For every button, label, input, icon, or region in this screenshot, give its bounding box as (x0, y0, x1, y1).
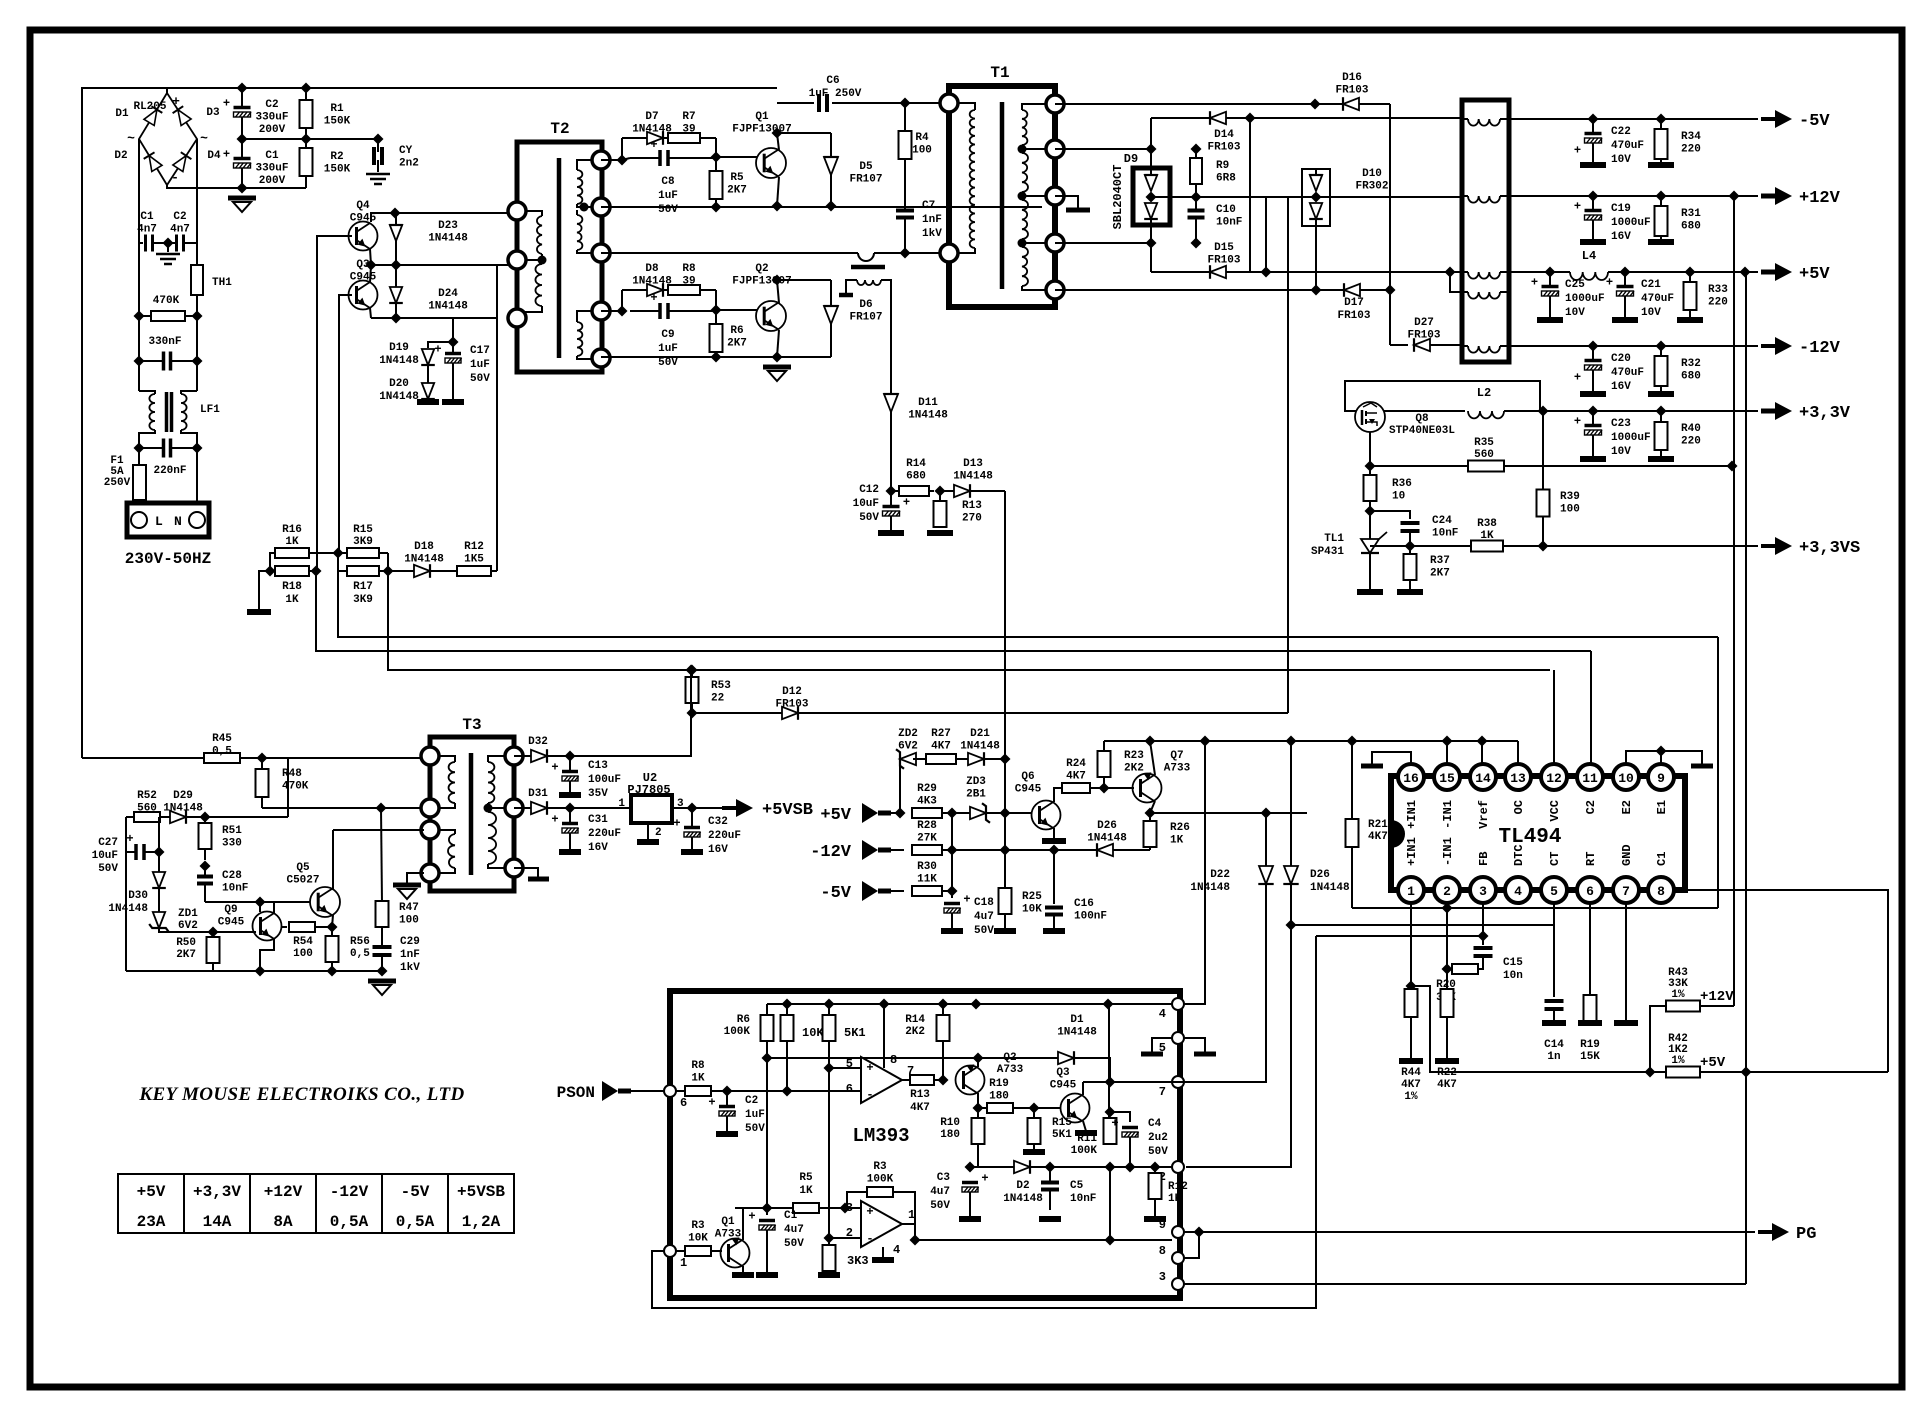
label R15 5K1 (1052, 1117, 1072, 1141)
resistor R12 1K (1149, 1167, 1162, 1215)
label D7 (632, 111, 672, 136)
svg-text:C19: C19 (1611, 203, 1631, 215)
wire (766, 1058, 768, 1215)
wire Q6 base (1005, 812, 1032, 814)
junction (1191, 238, 1202, 249)
label ZD2 (898, 728, 918, 753)
wire pin14 (1481, 741, 1483, 764)
resistor R7 (663, 133, 716, 143)
svg-text:+: + (866, 1061, 873, 1075)
svg-text:4K7: 4K7 (1368, 831, 1388, 843)
wire Q1 emitter (742, 1208, 744, 1240)
wire D1 row (767, 1057, 1058, 1059)
wire Q7 base (1104, 787, 1134, 789)
transistor Q3 C945 (349, 281, 378, 310)
label R42 (1668, 1033, 1688, 1067)
resistor R8 1K (685, 1086, 727, 1096)
ground (1075, 1130, 1097, 1136)
svg-text:220nF: 220nF (153, 465, 186, 477)
wire Q3 emitter (370, 308, 371, 318)
wire C4 branch (1110, 1112, 1130, 1122)
output +3,3VS (1761, 537, 1860, 558)
svg-text:2B1: 2B1 (966, 789, 986, 801)
PSON input arrow (557, 1081, 631, 1102)
label R3 100K (867, 1161, 894, 1186)
opamp LM393a (861, 1057, 902, 1103)
svg-text:RT: RT (1584, 852, 1598, 866)
svg-text:4K7: 4K7 (910, 1102, 930, 1114)
wire Q1 collector (777, 133, 779, 150)
wire pin3 row (1184, 1283, 1746, 1285)
svg-text:R38: R38 (1477, 518, 1497, 530)
svg-text:1N4148: 1N4148 (632, 276, 672, 288)
wire Q1 emitter (777, 177, 779, 206)
label R10 (940, 1117, 960, 1141)
svg-text:14: 14 (1475, 771, 1491, 786)
svg-text:D9: D9 (1124, 152, 1138, 166)
junction (1286, 736, 1297, 747)
svg-text:2: 2 (1443, 884, 1451, 899)
junction (772, 352, 783, 363)
label R50 (176, 937, 196, 961)
svg-text:R27: R27 (931, 728, 951, 740)
svg-text:GND: GND (1620, 844, 1634, 866)
svg-text:C945: C945 (1015, 784, 1042, 796)
resistor R23 (1098, 741, 1111, 788)
T3 bottom-left ground (407, 873, 424, 883)
svg-text:+: + (903, 496, 910, 510)
svg-text:D21: D21 (970, 728, 990, 740)
svg-text:R13: R13 (910, 1089, 930, 1101)
wire (138, 448, 140, 465)
resistor R17 (338, 566, 388, 576)
resistor R48 (256, 758, 269, 808)
wire (804, 712, 1288, 714)
transistor Q1 FJPF13007 (756, 148, 786, 178)
pin 3 (1172, 1278, 1184, 1290)
svg-text:PSON: PSON (557, 1084, 595, 1102)
ground (1614, 1020, 1638, 1026)
filter choke LF1 (139, 391, 197, 448)
junction (200, 861, 211, 872)
wire (874, 252, 945, 254)
junction (762, 1053, 773, 1064)
wire (139, 242, 143, 244)
wire pin2 (1446, 902, 1448, 989)
svg-text:100: 100 (293, 948, 313, 960)
wire row 290 (1055, 289, 1390, 291)
transistor Q3 C945 (1061, 1094, 1090, 1123)
wire (777, 102, 814, 104)
svg-text:13: 13 (1510, 771, 1526, 786)
junction (255, 897, 266, 908)
wire (167, 243, 169, 252)
wire (1650, 1006, 1666, 1072)
label R37 (1430, 555, 1450, 580)
wire (692, 712, 776, 714)
wire (138, 139, 140, 243)
diode D19 (421, 349, 435, 365)
label R27 (931, 728, 951, 753)
junction (772, 275, 783, 286)
terminal (940, 244, 958, 262)
label C27 (92, 837, 119, 875)
junction (971, 999, 982, 1010)
junction (373, 134, 384, 145)
junction (772, 128, 783, 139)
label C1 4n7 (137, 211, 157, 236)
svg-text:L: L (155, 514, 163, 529)
label 330nF (148, 336, 181, 348)
junction (134, 356, 145, 367)
capacitor C25 (1531, 272, 1559, 318)
svg-text:8: 8 (890, 1053, 897, 1067)
diode D18 (388, 564, 430, 578)
output -12V (1761, 337, 1841, 358)
transistor Q2 FJPF13007 (756, 301, 786, 331)
svg-text:10K: 10K (802, 1026, 824, 1040)
pin 7 (1613, 877, 1639, 903)
wire row9 (915, 1224, 1172, 1240)
label Q1 (732, 111, 791, 136)
wire +5V rail (1250, 271, 1462, 273)
label D21 (960, 728, 1000, 753)
svg-text:D23: D23 (438, 220, 458, 232)
label Q6 (1015, 771, 1042, 796)
wire (1172, 1081, 1186, 1083)
wire (647, 823, 649, 839)
wire (570, 807, 631, 809)
svg-text:C6: C6 (826, 75, 839, 87)
resistor R15 (338, 548, 388, 558)
junction (1105, 1107, 1116, 1118)
svg-text:R12: R12 (464, 541, 484, 553)
wire +5V row (1509, 271, 1560, 273)
wire (715, 290, 717, 310)
junction (895, 808, 906, 819)
svg-text:T3: T3 (462, 716, 481, 734)
resistor R2 (300, 139, 313, 188)
wire (1249, 118, 1251, 272)
junction (824, 1063, 835, 1074)
wire (1290, 741, 1292, 866)
svg-text:+: + (172, 94, 180, 109)
wire Q2 collector (977, 1093, 979, 1108)
svg-text:R35: R35 (1474, 437, 1494, 449)
svg-text:470uF: 470uF (1641, 293, 1674, 305)
svg-text:FR107: FR107 (849, 174, 882, 186)
junction (1105, 1077, 1116, 1088)
svg-text:1K: 1K (691, 1073, 705, 1085)
wire pin1 (1410, 902, 1412, 989)
label C28 (222, 870, 248, 895)
label Q3 (350, 259, 377, 284)
wire (167, 185, 306, 188)
ground (637, 839, 659, 845)
junction (1477, 736, 1488, 747)
label C21 (1641, 279, 1674, 319)
wire (1389, 104, 1391, 345)
wire Q3 collector (1082, 1082, 1084, 1095)
ground (559, 849, 581, 855)
ground (1580, 239, 1606, 245)
resistor R6 100K (761, 1004, 774, 1058)
label R20 (1436, 979, 1456, 1004)
svg-text:50V: 50V (658, 357, 678, 369)
svg-text:+: + (866, 1205, 873, 1219)
junction (973, 1053, 984, 1064)
svg-text:R26: R26 (1170, 822, 1190, 834)
capacitor C10 (1188, 197, 1205, 243)
svg-text:LM393: LM393 (852, 1125, 909, 1147)
label R25 (1022, 891, 1042, 916)
label D2 (1003, 1180, 1043, 1205)
diode D26 (1092, 843, 1150, 857)
svg-text:C945: C945 (350, 272, 377, 284)
resistor R5 (710, 157, 723, 206)
svg-text:5K1: 5K1 (844, 1026, 866, 1040)
diode D20 (421, 365, 435, 400)
svg-text:1N4148: 1N4148 (163, 803, 203, 815)
capacitor C24 (1401, 523, 1420, 546)
svg-text:1K: 1K (799, 1185, 813, 1197)
svg-text:R8: R8 (682, 263, 696, 275)
svg-text:R7: R7 (682, 111, 695, 123)
wire -5V row (1509, 118, 1758, 120)
diode D17 (1344, 283, 1360, 297)
wire (514, 807, 526, 809)
resistor R24 (1062, 783, 1104, 793)
svg-text:+: + (126, 832, 133, 846)
svg-text:T2: T2 (550, 120, 569, 138)
wire +5V feed (1745, 272, 1747, 1284)
label F1 (104, 455, 131, 489)
diode D32 (526, 749, 570, 763)
ground (1580, 456, 1606, 462)
svg-text:R34: R34 (1681, 131, 1701, 143)
svg-text:C10: C10 (1216, 204, 1236, 216)
svg-text:4u7: 4u7 (930, 1186, 950, 1198)
input -12V (810, 840, 891, 862)
svg-text:L4: L4 (1582, 249, 1596, 263)
junction (1478, 931, 1489, 942)
rectifier D9 SBL2040CT box (1133, 168, 1170, 225)
capacitor C27 (126, 832, 159, 860)
wire bus3 (388, 571, 1550, 670)
resistor R9 (1190, 149, 1202, 197)
diode D8 (640, 283, 663, 297)
resistor R47 (376, 901, 389, 927)
wire Q3 emitter (1083, 1121, 1086, 1131)
wire Q2 collector (777, 280, 779, 303)
label C18 (974, 897, 994, 937)
svg-text:50V: 50V (470, 373, 490, 385)
svg-text:C23: C23 (1611, 418, 1631, 430)
svg-text:A733: A733 (715, 1229, 742, 1241)
svg-text:200V: 200V (259, 175, 286, 187)
svg-text:R18: R18 (282, 581, 302, 593)
capacitor C2 1uF (708, 1091, 735, 1132)
junction (1729, 191, 1740, 202)
junction (1645, 1067, 1656, 1078)
label R31 (1681, 208, 1701, 233)
label C22 (1611, 126, 1644, 166)
zener ZD1 (149, 889, 169, 932)
T1 center tap ground (1055, 196, 1090, 210)
output +3,3V (1761, 402, 1851, 423)
svg-text:D1: D1 (1070, 1014, 1084, 1026)
capacitor C8 (630, 138, 716, 166)
svg-text:R19: R19 (989, 1078, 1009, 1090)
svg-text:100K: 100K (867, 1174, 894, 1186)
resistor R29 (912, 808, 952, 818)
capacitor C21 (1606, 272, 1634, 318)
connector L-N (127, 503, 209, 537)
diode D22 (1258, 866, 1273, 884)
svg-text:+: + (650, 138, 657, 152)
svg-text:4K7: 4K7 (1437, 1079, 1457, 1091)
wire row 253 (601, 252, 858, 254)
junction (1347, 736, 1358, 747)
ground (1043, 928, 1065, 934)
svg-text:10K: 10K (688, 1233, 708, 1245)
svg-text:1K: 1K (285, 536, 299, 548)
svg-text:220: 220 (1708, 297, 1728, 309)
label Q2 (997, 1052, 1024, 1076)
terminal (505, 799, 523, 817)
junction (1442, 964, 1453, 975)
svg-text:1%: 1% (1671, 989, 1685, 1001)
svg-text:1,2A: 1,2A (462, 1213, 501, 1231)
wire Q7 emitter (1150, 741, 1155, 775)
wire (1410, 1017, 1412, 1059)
label R13 (910, 1089, 930, 1114)
label C19 (1611, 203, 1651, 243)
svg-text:D26: D26 (1097, 820, 1117, 832)
pin 2 (1434, 877, 1460, 903)
label D24 (428, 288, 468, 313)
label D22 (1190, 869, 1230, 894)
resistor 3K3 (823, 1245, 836, 1273)
resistor R15 5K1 (1028, 1108, 1041, 1144)
svg-text:1uF 250V: 1uF 250V (809, 88, 862, 100)
ground (681, 849, 703, 855)
wire Q2 base (716, 309, 757, 311)
transistor Q6 C945 (1032, 801, 1061, 830)
wire (196, 295, 198, 316)
svg-text:10nF: 10nF (222, 883, 248, 895)
wire 3K3 col (828, 1068, 830, 1245)
svg-text:R51: R51 (222, 825, 242, 837)
label R17 (353, 581, 373, 606)
terminal (592, 302, 610, 320)
svg-text:10: 10 (1392, 491, 1405, 503)
label C32 (708, 816, 741, 856)
resistor R43 (1666, 1001, 1700, 1012)
ground (756, 1272, 778, 1278)
junction (1656, 406, 1667, 417)
svg-text:220: 220 (1681, 436, 1701, 448)
junction (1656, 114, 1667, 125)
svg-text:+: + (1111, 1117, 1118, 1131)
svg-text:C2: C2 (173, 211, 186, 223)
transistor Q7 A733 (1133, 772, 1162, 802)
label C31 (588, 814, 621, 854)
capacitor CY (374, 147, 382, 165)
label R8 (682, 263, 696, 288)
svg-text:23A: 23A (137, 1213, 166, 1231)
T3 bottom-right ground (514, 868, 549, 879)
junction (333, 548, 344, 559)
svg-text:1N4148: 1N4148 (379, 355, 419, 367)
svg-text:680: 680 (1681, 371, 1701, 383)
svg-text:R19: R19 (1580, 1039, 1600, 1051)
svg-text:1: 1 (680, 1256, 687, 1270)
wire (287, 758, 289, 817)
svg-text:7: 7 (1622, 884, 1630, 899)
svg-text:1nF: 1nF (922, 214, 942, 226)
svg-text:R52: R52 (137, 790, 157, 802)
svg-text:C12: C12 (859, 484, 879, 496)
wire row 1082 (1083, 1081, 1172, 1083)
svg-text:C1: C1 (140, 211, 154, 223)
svg-text:D10: D10 (1362, 168, 1382, 180)
svg-text:CT: CT (1548, 852, 1562, 866)
wire (196, 448, 198, 512)
label Q3 C945 (1050, 1067, 1077, 1092)
comparator box LM393 (670, 991, 1180, 1298)
junction (711, 202, 722, 213)
svg-text:50V: 50V (1148, 1146, 1168, 1158)
label C12 (853, 484, 880, 524)
ground (872, 1257, 894, 1263)
svg-text:180: 180 (940, 1129, 960, 1141)
svg-text:TH1: TH1 (212, 277, 232, 289)
junction (879, 999, 890, 1010)
label D17 (1337, 297, 1370, 322)
svg-text:1%: 1% (1404, 1091, 1418, 1103)
junction (900, 98, 911, 109)
resistor 10K (781, 1004, 794, 1091)
ground (1435, 1058, 1459, 1064)
wire (205, 816, 288, 818)
junction (1656, 191, 1667, 202)
svg-text:+: + (708, 1096, 715, 1110)
svg-text:1kV: 1kV (400, 962, 420, 974)
junction (722, 1086, 733, 1097)
junction (327, 966, 338, 977)
svg-text:12: 12 (1546, 771, 1562, 786)
junction (1588, 341, 1599, 352)
wire (1265, 197, 1267, 272)
pin 6 PSON (664, 1085, 676, 1097)
svg-text:D29: D29 (173, 790, 193, 802)
wire (1450, 272, 1462, 292)
svg-text:R50: R50 (176, 937, 196, 949)
wire (1151, 271, 1250, 273)
wire rail -5Vsrc (1055, 103, 1390, 105)
svg-text:SBL2040CT: SBL2040CT (1111, 165, 1125, 230)
ground (763, 367, 791, 381)
resistor R26 (1144, 813, 1157, 850)
wire (1151, 117, 1462, 119)
wire (1370, 511, 1410, 519)
svg-text:C14: C14 (1544, 1039, 1564, 1051)
svg-text:C3: C3 (937, 1172, 951, 1184)
junction (686, 665, 697, 676)
terminal (505, 747, 523, 765)
wire (1150, 812, 1307, 814)
